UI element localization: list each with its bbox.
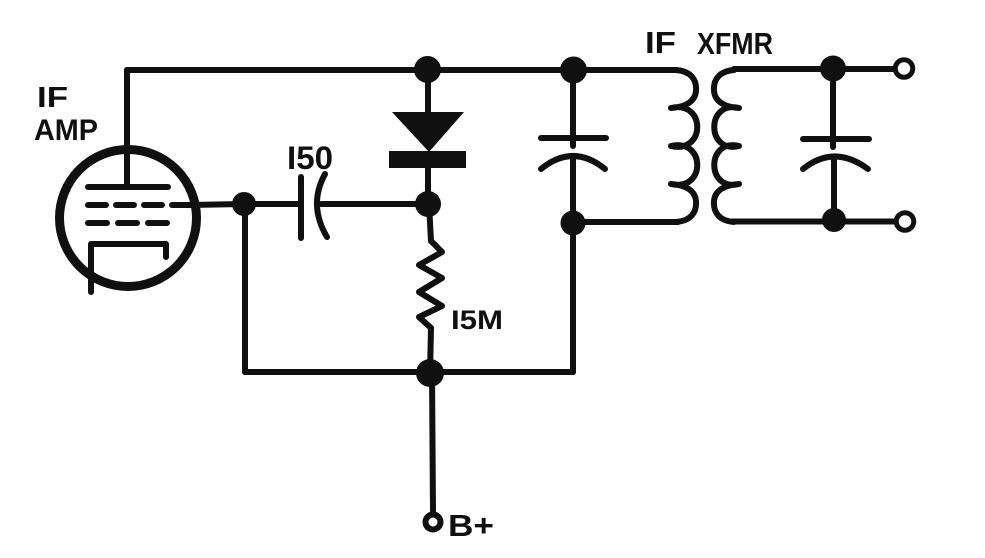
wire node D to B+ terminal	[432, 373, 433, 512]
wire grid output to node A	[190, 204, 243, 205]
transformer T1 primary winding	[671, 70, 697, 222]
tube V1 envelope	[60, 150, 197, 287]
node E junction dot (top rail / C2)	[560, 57, 587, 84]
wire secondary top to output	[734, 66, 894, 72]
wire plate lead to top rail	[124, 70, 130, 187]
tube V1 cathode	[91, 244, 166, 292]
output terminal bottom open circle	[896, 213, 914, 231]
capacitor C3 curved plate	[803, 157, 868, 170]
wire secondary bottom to output	[732, 219, 895, 225]
capacitor C3 flat plate	[803, 136, 869, 142]
resistor R1 zigzag	[419, 241, 442, 328]
capacitor C1 right curved plate	[317, 174, 327, 237]
svg-text:B+: B+	[448, 508, 494, 543]
svg-text:IF: IF	[37, 82, 68, 114]
wire node E to transformer T1 primary top	[573, 67, 676, 73]
wire node A to capacitor C1	[244, 201, 301, 207]
svg-text:IF: IF	[645, 25, 676, 60]
capacitor C1 left plate	[298, 177, 304, 238]
wire node A down to bottom rail	[242, 204, 248, 372]
svg-text:AMP: AMP	[34, 114, 98, 147]
tube V1 grid 1 (dashed)	[88, 202, 190, 208]
tube V1 grid 2 (dashed)	[88, 220, 168, 226]
node A junction dot	[232, 192, 256, 216]
wire diode cathode to node B	[425, 168, 431, 204]
wire node F to transformer T1 primary bottom	[573, 219, 678, 225]
node H junction dot (secondary bottom / C3)	[822, 208, 846, 232]
wire top rail left	[127, 67, 676, 73]
wire C3 bottom lead to node H	[831, 158, 837, 220]
wire diode anode lead	[425, 70, 431, 113]
wire C2 bottom lead to node F	[570, 157, 576, 224]
svg-text:I5M: I5M	[451, 305, 503, 335]
output terminal top open circle	[895, 60, 913, 78]
wire C1 to node B	[321, 201, 428, 207]
node B junction dot	[415, 191, 441, 217]
diode D1 triangle	[392, 112, 464, 152]
wire bottom rail	[245, 369, 573, 375]
node G junction dot (secondary top / C3)	[820, 56, 846, 82]
wire C2 top lead	[570, 70, 576, 146]
svg-text:XFMR: XFMR	[697, 26, 773, 61]
node D junction dot (bottom rail / B+ tap)	[416, 359, 444, 387]
capacitor C2 curved plate	[541, 156, 605, 169]
wire node B to resistor R1	[429, 204, 431, 241]
diode D1 cathode bar	[389, 151, 466, 168]
transformer T1 secondary winding	[714, 70, 739, 222]
node F junction dot (C2 / primary bottom / bottom rail)	[561, 211, 586, 236]
svg-text:I50: I50	[287, 140, 333, 176]
wire C3 top lead	[830, 69, 836, 147]
node C junction dot (top rail / diode anode)	[414, 56, 441, 83]
B+ terminal open circle	[426, 515, 441, 530]
tube V1 plate	[88, 184, 168, 190]
wire node F down to bottom rail	[570, 224, 576, 372]
capacitor C2 flat plate	[541, 135, 606, 141]
wire resistor R1 to node D	[430, 328, 431, 373]
